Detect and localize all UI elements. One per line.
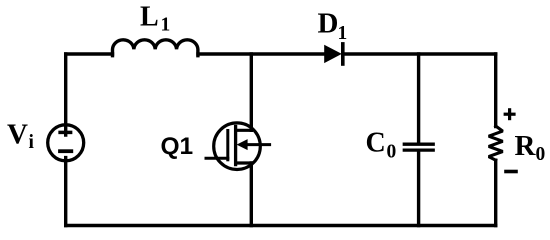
Q1 body line with arrow xyxy=(237,139,270,150)
svg-text:D: D xyxy=(318,8,339,40)
Q1 gate bar xyxy=(226,131,229,160)
resistor R0 zigzag xyxy=(489,126,503,160)
polarity plus at R0 top xyxy=(505,110,514,119)
wire: C0 bottom plate down to bottom rail xyxy=(417,152,420,226)
wire: bottom rail from Vi to Q1 source to C0 to R0 xyxy=(66,224,496,227)
wire: R0 bottom down to bottom rail xyxy=(494,160,497,225)
polarity plus inside Vi xyxy=(60,131,71,135)
svg-text:1: 1 xyxy=(338,23,348,44)
label D1 xyxy=(318,8,348,44)
Q1 channel bar xyxy=(234,127,237,165)
svg-text:L: L xyxy=(140,1,159,32)
polarity minus at R0 bottom xyxy=(506,170,516,174)
capacitor C0 top plate xyxy=(404,143,433,146)
svg-text:1: 1 xyxy=(161,15,171,36)
Q1 drain stub xyxy=(236,129,252,132)
polarity minus inside Vi xyxy=(60,149,71,153)
label R0 xyxy=(515,130,546,165)
node: Q1 drain tap on top rail, wire down to MOSFET drain xyxy=(250,54,253,130)
MOSFET Q1 body circle xyxy=(214,123,261,170)
svg-text:0: 0 xyxy=(536,144,546,165)
wire: Q1 source down to bottom rail xyxy=(250,163,253,226)
Q1 gate lead wire xyxy=(206,157,228,160)
capacitor C0 bottom plate xyxy=(404,148,433,151)
svg-text:V: V xyxy=(7,119,28,151)
svg-text:i: i xyxy=(29,132,35,153)
voltage source Vi (circle) xyxy=(48,125,84,161)
wire: top rail from L1 right terminal to diode D1 anode xyxy=(198,52,324,55)
inductor L1 xyxy=(113,40,198,56)
diode D1 (anode triangle + cathode bar) xyxy=(324,44,343,64)
Q1 source stub xyxy=(236,161,252,164)
node: C0 top tap on top rail, wire down to capacitor top plate xyxy=(417,54,420,143)
label C0 xyxy=(366,128,397,163)
wire: right rail from output node down to resistor R0 top xyxy=(494,54,497,127)
label L1 xyxy=(140,1,170,35)
svg-text:0: 0 xyxy=(387,141,397,162)
label Vi xyxy=(7,119,35,153)
wire: top rail from D1 cathode to output node xyxy=(343,52,496,55)
wire: left rail, Vi top lead up to top rail xyxy=(64,54,67,135)
svg-text:Q1: Q1 xyxy=(161,133,194,160)
wire: left rail, Vi bottom lead down to bottom rail xyxy=(64,158,67,226)
svg-text:C: C xyxy=(366,128,386,159)
wire: top rail from Vi positive node to inductor L1 left terminal xyxy=(66,52,113,55)
svg-text:R: R xyxy=(515,130,537,162)
